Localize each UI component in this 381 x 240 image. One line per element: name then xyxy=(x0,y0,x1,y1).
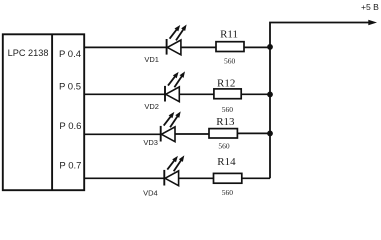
wire VD3 anode to R13 xyxy=(175,133,209,135)
wire R11 to +5V bus xyxy=(244,46,270,48)
+5V bus vertical wire xyxy=(270,23,369,179)
svg-text:VD1: VD1 xyxy=(144,55,159,64)
svg-text:P 0.4: P 0.4 xyxy=(59,49,81,60)
wire R12 to +5V bus xyxy=(241,93,270,95)
resistor R13 xyxy=(209,129,237,138)
svg-text:560: 560 xyxy=(222,105,234,114)
svg-text:R14: R14 xyxy=(217,156,236,168)
resistor R14 xyxy=(214,173,242,183)
wire P0.5 to VD2 cathode xyxy=(84,93,165,95)
LED VD1 xyxy=(167,25,187,55)
LED VD3 xyxy=(161,111,181,141)
svg-text:R13: R13 xyxy=(216,116,235,128)
resistor R11 xyxy=(216,42,244,52)
svg-text:R12: R12 xyxy=(217,77,235,89)
IC U1 internal divider xyxy=(51,34,53,190)
resistor R12 xyxy=(214,89,241,99)
svg-text:VD2: VD2 xyxy=(144,102,159,111)
node junction row1 xyxy=(267,44,273,50)
wire R14 to +5V bus corner xyxy=(242,177,270,179)
wire R13 to +5V bus xyxy=(237,132,270,134)
IC U1 box outline xyxy=(3,34,84,190)
svg-text:P 0.6: P 0.6 xyxy=(59,121,81,132)
wire VD4 anode to R14 xyxy=(178,177,213,179)
+5V arrowhead xyxy=(368,20,377,25)
LED VD4 xyxy=(164,155,184,185)
wire VD1 anode to R11 xyxy=(181,46,216,48)
svg-text:VD4: VD4 xyxy=(143,189,158,198)
wire P0.6 to VD3 cathode xyxy=(84,133,161,135)
svg-text:R11: R11 xyxy=(220,29,238,41)
svg-text:560: 560 xyxy=(218,142,230,151)
svg-text:P 0.7: P 0.7 xyxy=(59,161,81,172)
LED VD2 xyxy=(165,71,185,101)
node junction row3 xyxy=(267,131,273,137)
wire P0.7 to VD4 cathode xyxy=(84,177,164,179)
svg-text:+5 В: +5 В xyxy=(361,2,379,12)
svg-text:560: 560 xyxy=(222,188,234,197)
svg-text:VD3: VD3 xyxy=(143,138,158,147)
wire VD2 anode to R12 xyxy=(179,93,214,95)
svg-text:P 0.5: P 0.5 xyxy=(59,82,81,93)
svg-text:560: 560 xyxy=(224,57,236,66)
wire P0.4 to VD1 cathode xyxy=(84,46,166,48)
svg-text:LPC 2138: LPC 2138 xyxy=(8,48,49,58)
node junction row2 xyxy=(267,92,273,98)
